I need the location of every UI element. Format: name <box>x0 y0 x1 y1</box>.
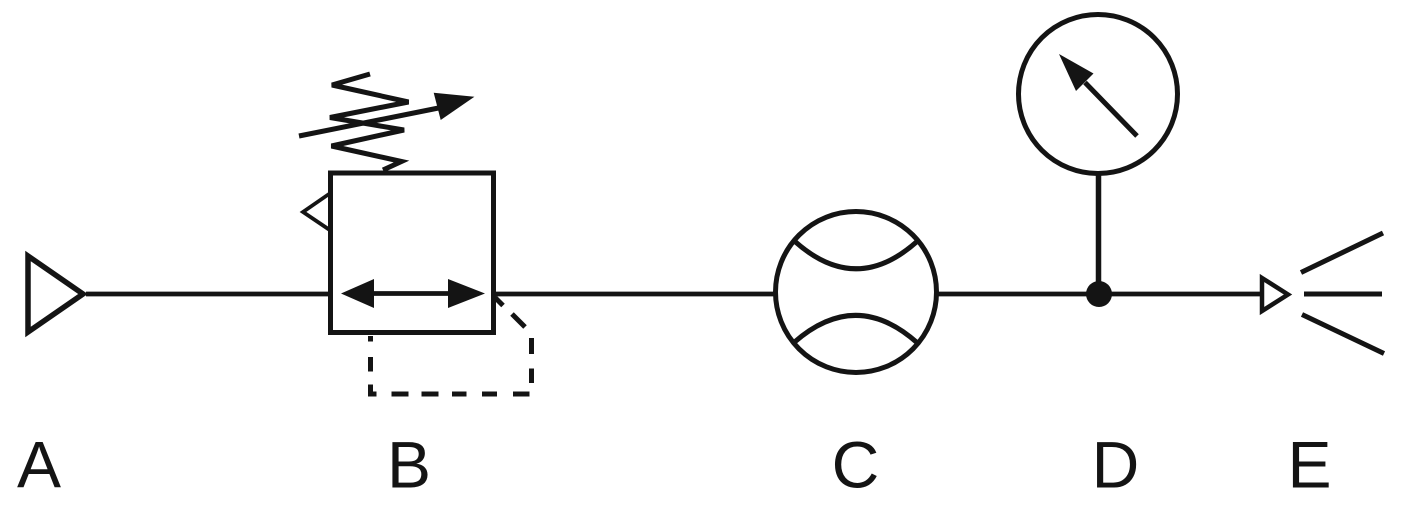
right flow arrowhead <box>448 279 485 308</box>
gauge stem wire <box>1096 176 1102 295</box>
svg-text:E: E <box>1287 428 1331 502</box>
junction node dot <box>1086 281 1112 307</box>
gauge needle arrowhead <box>1059 54 1094 91</box>
gauge D body <box>1019 15 1178 174</box>
pilot dashed line <box>371 298 532 395</box>
wire C to E <box>939 292 1262 297</box>
flow meter top arc <box>795 242 917 269</box>
svg-text:B: B <box>387 428 431 502</box>
adjustment arrow shaft <box>299 107 446 137</box>
left flow arrowhead <box>341 279 374 308</box>
flow meter C body <box>776 212 937 373</box>
spray line bottom <box>1302 315 1384 354</box>
spring zigzag <box>330 74 409 170</box>
regulator box B <box>331 173 494 333</box>
relief vent triangle <box>303 194 329 230</box>
wire A to B <box>86 292 331 297</box>
svg-text:C: C <box>832 428 880 502</box>
svg-text:D: D <box>1092 428 1140 502</box>
gauge needle shaft <box>1085 83 1137 137</box>
svg-text:A: A <box>17 428 61 502</box>
adjustment arrowhead <box>434 93 475 120</box>
source triangle A <box>28 256 83 332</box>
wire B to C <box>493 292 774 297</box>
outlet triangle E <box>1262 278 1288 311</box>
spray line top <box>1301 233 1383 273</box>
flow meter bottom arc <box>794 315 918 343</box>
spray line middle <box>1304 292 1382 297</box>
flow line inside box <box>360 291 466 296</box>
